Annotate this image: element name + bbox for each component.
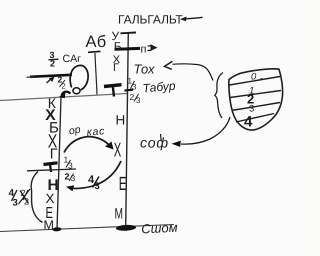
tick: T bar under Аб [88, 50, 101, 53]
letter Т bold (left rail) [44, 163, 58, 165]
svg-text:Х: Х [114, 140, 121, 162]
svg-text:3: 3 [68, 161, 73, 171]
svg-text:М: М [115, 206, 124, 223]
svg-text:4: 4 [244, 114, 253, 131]
svg-text:Табур: Табур [142, 79, 176, 96]
tooth line 3 [232, 103, 281, 111]
svg-text:Тох: Тох [134, 62, 155, 77]
junction blob left rail bottom [52, 227, 61, 231]
svg-text:ор: ор [68, 124, 82, 138]
arrow after top label [185, 17, 203, 19]
svg-text:СAг: СAг [63, 53, 82, 65]
svg-text:2: 2 [65, 172, 70, 182]
svg-text:Аб: Аб [86, 33, 107, 51]
tick: bold пэ bar [115, 47, 141, 51]
svg-text:3: 3 [13, 198, 18, 209]
wire: center vertical rail [126, 33, 129, 228]
svg-text:3: 3 [71, 173, 76, 183]
wire: bottom ground line [0, 225, 174, 232]
arrow arc ор кас [64, 137, 110, 153]
bold arrow into junction [62, 92, 71, 96]
svg-text:кас: кас [86, 125, 105, 138]
brace of tooth [215, 73, 223, 119]
svg-text:Г: Г [113, 62, 119, 74]
wire: left vertical rail [57, 97, 61, 230]
svg-text:Н: Н [116, 113, 126, 128]
svg-text:0: 0 [251, 72, 257, 83]
brace (left margin) [31, 172, 42, 223]
tooth line 2 [230, 91, 281, 98]
loop (lasso) [70, 65, 88, 89]
arrow arc 4/3 [72, 161, 122, 188]
letter Т bold (left of center rail) [104, 85, 122, 87]
svg-text:п: п [141, 44, 147, 56]
junction blob center rail bottom [116, 224, 136, 231]
svg-text:ГАЛЬГАЛЬТ: ГАЛЬГАЛЬТ [118, 13, 183, 27]
tooth outline [229, 69, 283, 130]
svg-text:соф: соф [140, 135, 169, 151]
svg-text:2: 2 [130, 92, 135, 102]
svg-text:М: М [44, 218, 54, 232]
svg-text:Г: Г [50, 147, 58, 163]
wire: Аб stem [95, 53, 97, 95]
svg-text:Е: Е [119, 174, 127, 195]
arrow to соф [181, 117, 230, 144]
tooth line 1 [230, 77, 281, 86]
wire: long sloped baseline [0, 94, 127, 101]
tick on center rail [125, 90, 134, 91]
svg-text:2: 2 [62, 82, 66, 91]
tick: top T bar on center rail [121, 32, 137, 35]
svg-text:3: 3 [136, 96, 141, 105]
svg-text:Х: Х [46, 191, 55, 206]
svg-text:Сшом: Сшом [141, 220, 178, 237]
arrowhead under left bar [47, 79, 52, 84]
tooth line 4 [236, 114, 274, 123]
loop end circle [73, 88, 80, 94]
svg-text:3: 3 [95, 181, 100, 192]
svg-text:2: 2 [50, 59, 55, 69]
wire: left bold bar [30, 75, 72, 77]
svg-text:Б: Б [114, 40, 122, 54]
tick: horizontal bar on left rail [27, 169, 76, 171]
arrow to Тох [173, 64, 214, 81]
